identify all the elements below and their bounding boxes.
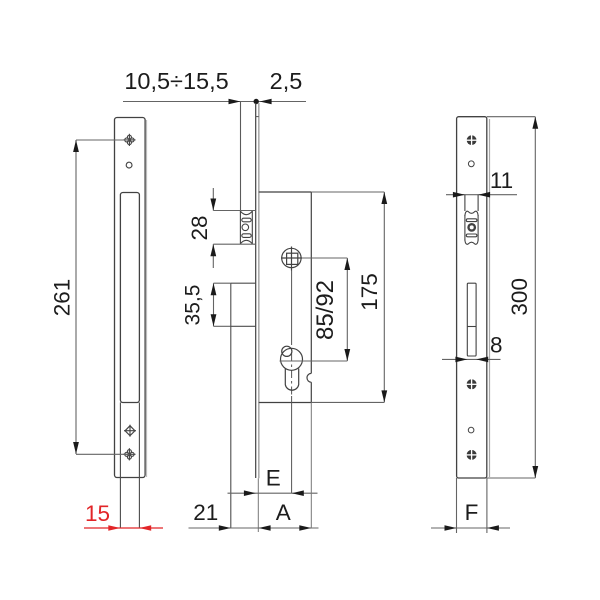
svg-text:2,5: 2,5 — [270, 68, 303, 94]
svg-text:35,5: 35,5 — [182, 285, 205, 326]
svg-text:11: 11 — [490, 168, 513, 193]
svg-text:85/92: 85/92 — [312, 280, 339, 340]
svg-text:8: 8 — [490, 332, 503, 357]
svg-text:A: A — [276, 500, 291, 525]
svg-text:28: 28 — [187, 215, 212, 240]
svg-text:F: F — [465, 500, 479, 525]
svg-text:15: 15 — [85, 501, 110, 526]
svg-text:21: 21 — [193, 500, 218, 525]
svg-text:300: 300 — [507, 278, 532, 316]
svg-text:261: 261 — [50, 279, 75, 317]
svg-text:175: 175 — [357, 273, 382, 311]
svg-text:E: E — [266, 466, 281, 491]
svg-text:10,5÷15,5: 10,5÷15,5 — [124, 68, 228, 94]
